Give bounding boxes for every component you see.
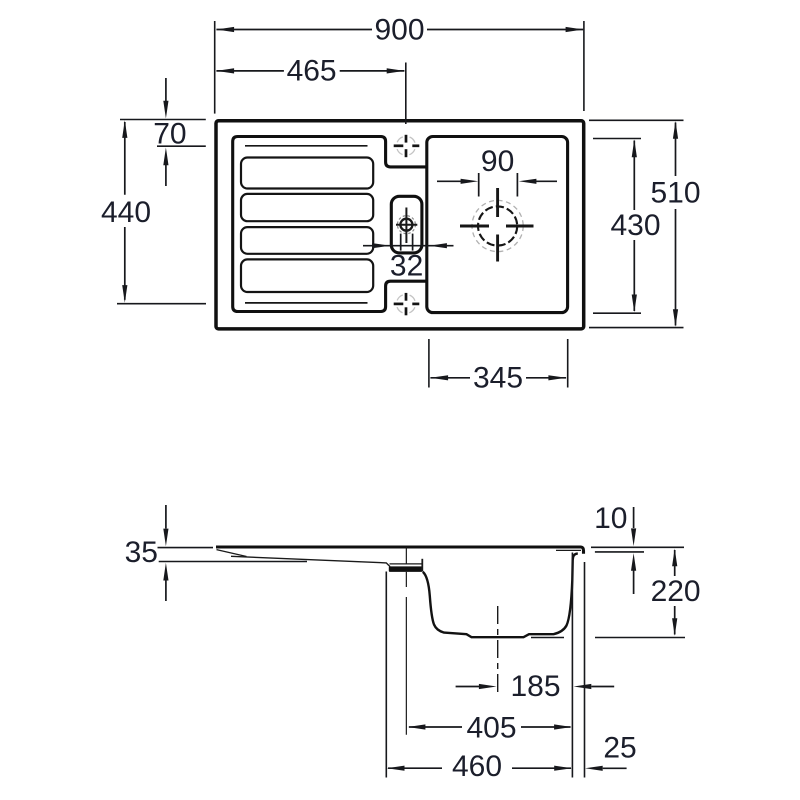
top view: tap hole centerline horizontal (396, 224, 417, 226)
dimension 220 (674, 550, 676, 635)
svg-text:35: 35 (125, 536, 158, 569)
svg-text:510: 510 (650, 176, 700, 209)
top view: top mounting crosshair (394, 135, 420, 157)
extension line tap centre above sink (405, 63, 407, 125)
side view: rim left taper line (217, 550, 247, 557)
svg-text:10: 10 (594, 502, 627, 535)
side view: rim top surface with right end hook (216, 547, 584, 554)
top view: drain centerline horizontal arms (460, 225, 534, 228)
side view: drain centreline (497, 606, 499, 697)
top view: drain circle dashed (478, 206, 517, 245)
dimension 430 (593, 138, 641, 140)
dimension 185 (456, 686, 479, 688)
extension line bowl right under side view (571, 553, 573, 778)
top view: sink outer outline (216, 121, 584, 329)
svg-text:185: 185 (510, 670, 560, 703)
dimension 32 (363, 245, 454, 247)
top view: tap hole centerline vertical (405, 208, 407, 244)
top view: tap hole circle (400, 219, 412, 231)
svg-text:25: 25 (603, 731, 636, 764)
dimension 345 (428, 339, 430, 388)
svg-text:440: 440 (101, 196, 151, 229)
top view: tap hole platform (391, 196, 422, 253)
dimension 405 (409, 726, 571, 728)
side view: bowl section profile (423, 554, 578, 638)
side view: drainer surface slope line (231, 556, 390, 566)
extension line left of sink top (214, 21, 216, 114)
dimension 35 (158, 547, 214, 549)
side view: tap deck front edge (421, 559, 423, 572)
top view: drainer slot 3 (241, 227, 373, 254)
svg-text:465: 465 (287, 54, 337, 87)
extension line bowl left under side view (385, 572, 387, 778)
dimension 10 (591, 546, 684, 548)
top view: drainer slot 1 (241, 158, 373, 189)
dimension 900 (216, 29, 583, 31)
svg-text:70: 70 (153, 118, 186, 151)
svg-text:405: 405 (466, 711, 516, 744)
dimension 460 (388, 767, 571, 769)
side view: tap deck section bar (389, 566, 423, 572)
svg-text:900: 900 (374, 14, 424, 47)
top view: bottom mounting crosshair (394, 293, 420, 315)
side view: tap hole centreline (405, 547, 407, 735)
svg-text:90: 90 (481, 145, 514, 178)
svg-text:32: 32 (390, 249, 423, 282)
svg-text:220: 220 (651, 575, 701, 608)
top view: drainer inner contour bottom line (245, 302, 368, 304)
extension line rim right under side view (584, 562, 586, 778)
side view: tap deck top line (390, 563, 422, 565)
extension line right of sink top (583, 21, 585, 111)
svg-text:460: 460 (452, 750, 502, 783)
top view: drainer slot 2 (241, 194, 373, 221)
dimension 90 (478, 173, 480, 197)
dimension 70 (120, 119, 206, 121)
top view: drainer inner contour top line (245, 145, 368, 147)
dimension 440 (124, 122, 126, 300)
side view: rim underside right segment (556, 549, 581, 551)
svg-text:430: 430 (610, 209, 660, 242)
top view: drain outer dashed circle (472, 200, 523, 251)
svg-text:345: 345 (473, 361, 523, 394)
dimension 25 (603, 767, 627, 769)
top view: drainer recess contour (233, 137, 427, 312)
dimension 465 (216, 70, 404, 72)
top view: bowl outline (427, 137, 568, 313)
top view: drain centerline vertical arms (496, 188, 499, 262)
top view: tap hole dashed circle (397, 216, 415, 234)
dimension 510 (589, 119, 684, 121)
top view: drainer slot 4 (241, 259, 373, 292)
